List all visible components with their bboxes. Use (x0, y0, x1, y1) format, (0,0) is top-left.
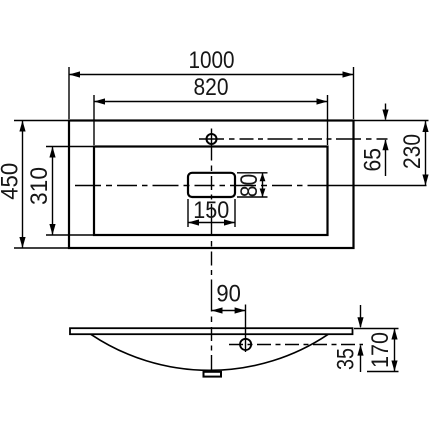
dimension 310 (26, 147, 93, 236)
drain rectangle 150x80 (top view) (188, 173, 235, 197)
dimension 90 (212, 281, 246, 314)
dimension 820 (94, 74, 328, 145)
top edge extension line (right) (355, 120, 429, 122)
svg-text:310: 310 (26, 167, 53, 205)
drain boss under bowl (204, 372, 222, 377)
dimension 65 (360, 104, 389, 177)
faucet hole (top view) (207, 134, 217, 144)
svg-text:450: 450 (0, 163, 24, 200)
faucet hole horizontal centerline (199, 138, 388, 140)
front view slab (70, 328, 353, 334)
overflow hole vertical extension line (245, 305, 247, 353)
basin outer rim rectangle (top view 1000x450) (69, 121, 354, 249)
svg-text:80: 80 (236, 174, 263, 198)
overflow hole horizontal centerline (229, 344, 363, 346)
svg-text:820: 820 (194, 74, 229, 101)
svg-text:170: 170 (367, 332, 394, 368)
dimension 170 (354, 329, 399, 372)
svg-text:230: 230 (399, 134, 426, 169)
dimension 35 (333, 305, 364, 372)
vertical centerline (211, 129, 213, 372)
overflow hole (front view) (240, 339, 251, 350)
svg-text:35: 35 (333, 348, 360, 370)
basin inner bowl rectangle (top view 820x310) (94, 147, 328, 236)
dimension 450 (0, 121, 68, 249)
svg-text:1000: 1000 (189, 47, 235, 74)
dimension 150 (188, 197, 235, 227)
dimension 230 (399, 121, 429, 186)
svg-text:150: 150 (193, 197, 229, 224)
svg-text:90: 90 (216, 281, 241, 308)
svg-text:65: 65 (360, 148, 387, 172)
dimension 80 (236, 173, 268, 197)
front view bowl arc (91, 334, 328, 370)
dimension 1000 (69, 47, 354, 119)
basin horizontal centerline (75, 185, 427, 187)
